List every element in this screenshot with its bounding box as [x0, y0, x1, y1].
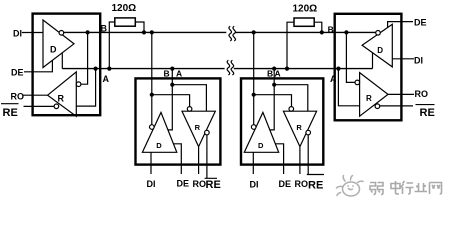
- svg-text:B: B: [267, 69, 273, 79]
- svg-text:120Ω: 120Ω: [293, 4, 318, 15]
- svg-text:RO: RO: [11, 92, 25, 102]
- svg-text:B: B: [164, 69, 170, 79]
- svg-text:RE: RE: [3, 107, 18, 119]
- svg-text:D: D: [377, 46, 383, 55]
- svg-text:D: D: [50, 45, 57, 55]
- svg-text:A: A: [275, 69, 281, 79]
- svg-text:RE: RE: [308, 180, 323, 192]
- svg-text:D: D: [156, 141, 162, 150]
- svg-text:R: R: [195, 123, 201, 132]
- svg-text:A: A: [330, 74, 337, 84]
- svg-text:R: R: [58, 94, 65, 104]
- svg-text:DI: DI: [13, 29, 22, 39]
- svg-text:120Ω: 120Ω: [112, 3, 137, 14]
- svg-text:DI: DI: [414, 56, 423, 66]
- svg-text:B: B: [328, 24, 334, 34]
- svg-text:RE: RE: [206, 179, 221, 191]
- svg-text:RO: RO: [415, 89, 429, 99]
- svg-text:R: R: [296, 123, 302, 132]
- svg-text:DE: DE: [279, 179, 292, 189]
- svg-text:DE: DE: [11, 68, 24, 78]
- svg-text:D: D: [258, 141, 264, 150]
- svg-text:RE: RE: [420, 107, 435, 119]
- svg-text:DI: DI: [147, 179, 156, 189]
- svg-text:R: R: [366, 94, 372, 103]
- svg-text:A: A: [176, 69, 182, 79]
- svg-text:DE: DE: [177, 179, 190, 189]
- svg-text:B: B: [101, 24, 108, 34]
- svg-text:RO: RO: [295, 179, 309, 189]
- svg-text:RO: RO: [193, 179, 207, 189]
- svg-text:DE: DE: [414, 18, 427, 28]
- svg-text:DI: DI: [250, 180, 259, 190]
- svg-text:A: A: [103, 74, 110, 84]
